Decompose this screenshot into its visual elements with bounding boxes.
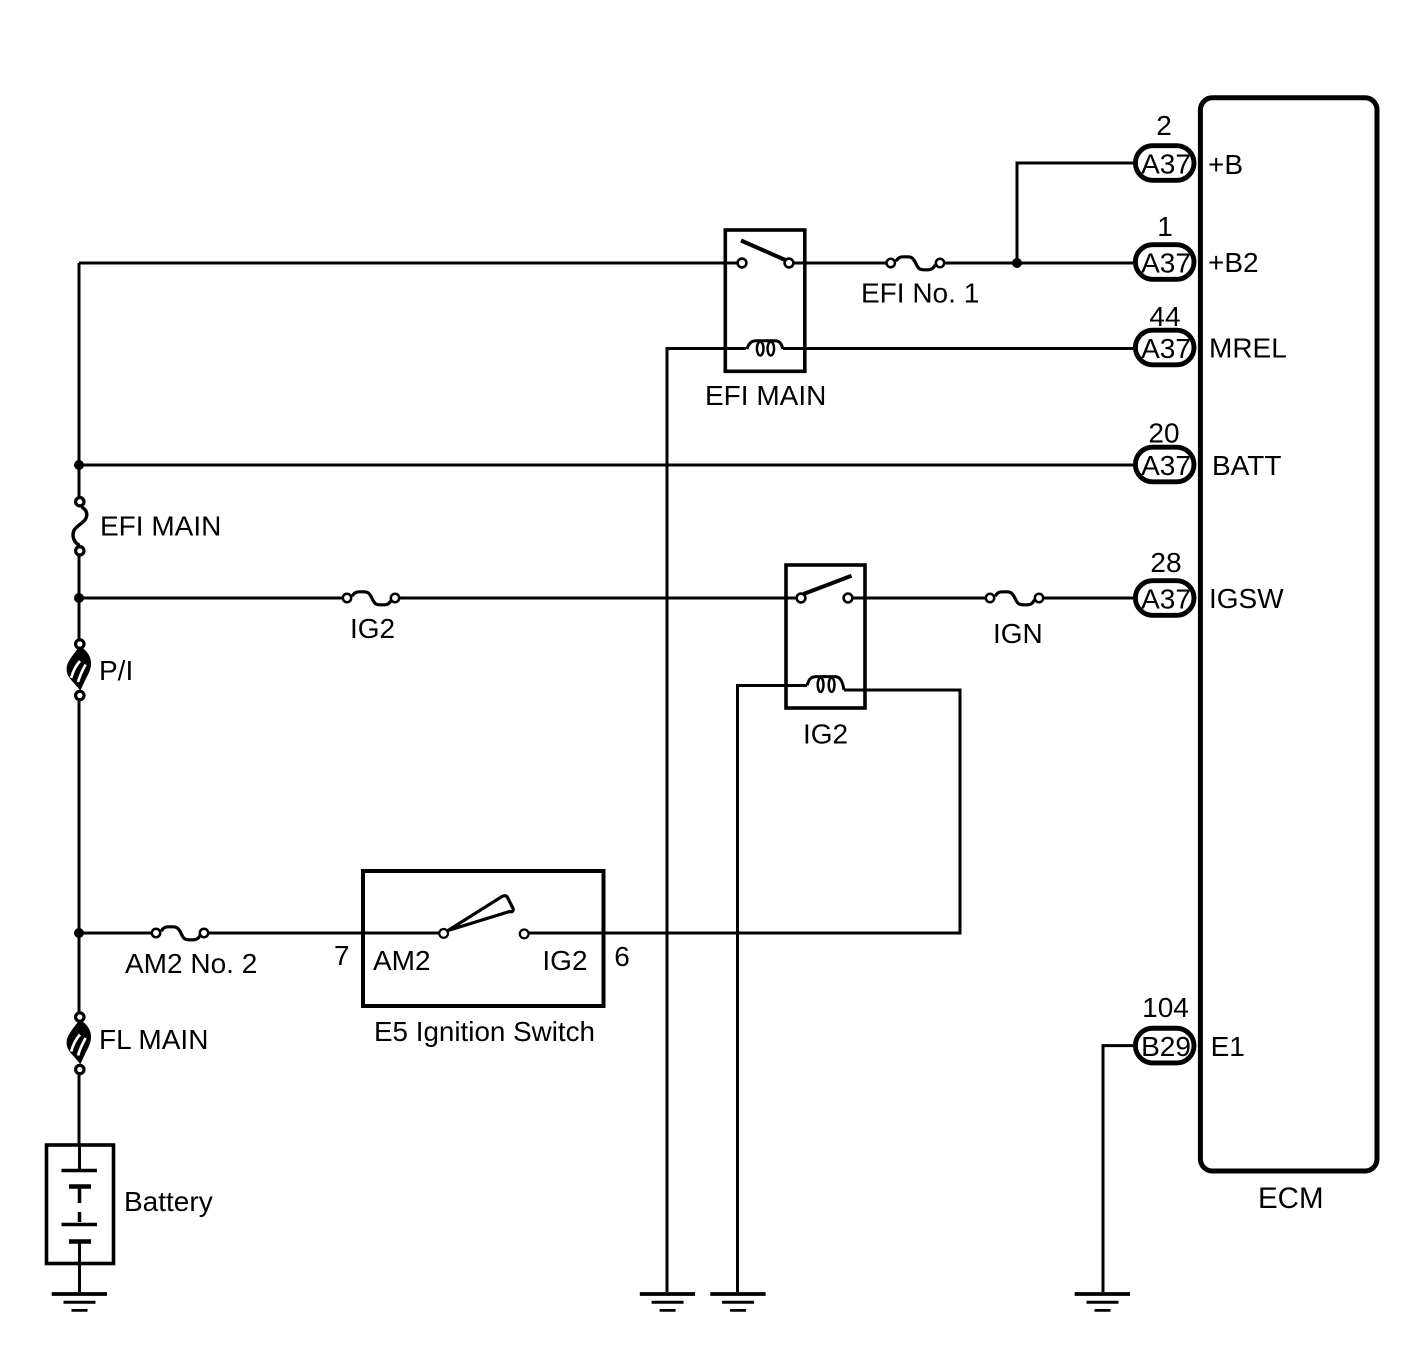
svg-text:+B: +B: [1208, 149, 1243, 180]
svg-text:E5 Ignition Switch: E5 Ignition Switch: [374, 1016, 595, 1047]
svg-text:FL MAIN: FL MAIN: [99, 1024, 208, 1055]
svg-text:28: 28: [1150, 547, 1181, 578]
svg-text:A37: A37: [1141, 333, 1191, 364]
svg-text:6: 6: [614, 941, 630, 972]
svg-text:44: 44: [1149, 301, 1180, 332]
svg-text:A37: A37: [1141, 247, 1191, 278]
svg-text:20: 20: [1148, 418, 1179, 449]
svg-text:P/I: P/I: [99, 655, 133, 686]
svg-text:104: 104: [1142, 992, 1189, 1023]
svg-text:ECM: ECM: [1258, 1182, 1324, 1215]
svg-text:Battery: Battery: [124, 1186, 213, 1217]
svg-text:A37: A37: [1141, 583, 1191, 614]
svg-text:+B2: +B2: [1208, 247, 1259, 278]
svg-text:IG2: IG2: [350, 613, 395, 644]
svg-text:7: 7: [334, 940, 350, 971]
svg-text:BATT: BATT: [1212, 450, 1281, 481]
svg-text:EFI No. 1: EFI No. 1: [861, 278, 979, 309]
svg-text:A37: A37: [1141, 148, 1191, 179]
svg-text:MREL: MREL: [1209, 333, 1287, 364]
svg-text:IG2: IG2: [803, 719, 848, 750]
svg-text:IGSW: IGSW: [1209, 583, 1284, 614]
svg-text:EFI MAIN: EFI MAIN: [705, 380, 826, 411]
svg-text:1: 1: [1157, 211, 1173, 242]
svg-text:IG2: IG2: [542, 945, 587, 976]
svg-text:E1: E1: [1211, 1031, 1245, 1062]
svg-text:IGN: IGN: [993, 618, 1043, 649]
svg-text:B29: B29: [1141, 1031, 1191, 1062]
svg-text:EFI MAIN: EFI MAIN: [100, 511, 221, 542]
svg-text:2: 2: [1156, 110, 1172, 141]
svg-text:AM2 No. 2: AM2 No. 2: [125, 948, 257, 979]
svg-text:AM2: AM2: [373, 945, 431, 976]
svg-text:A37: A37: [1141, 450, 1191, 481]
